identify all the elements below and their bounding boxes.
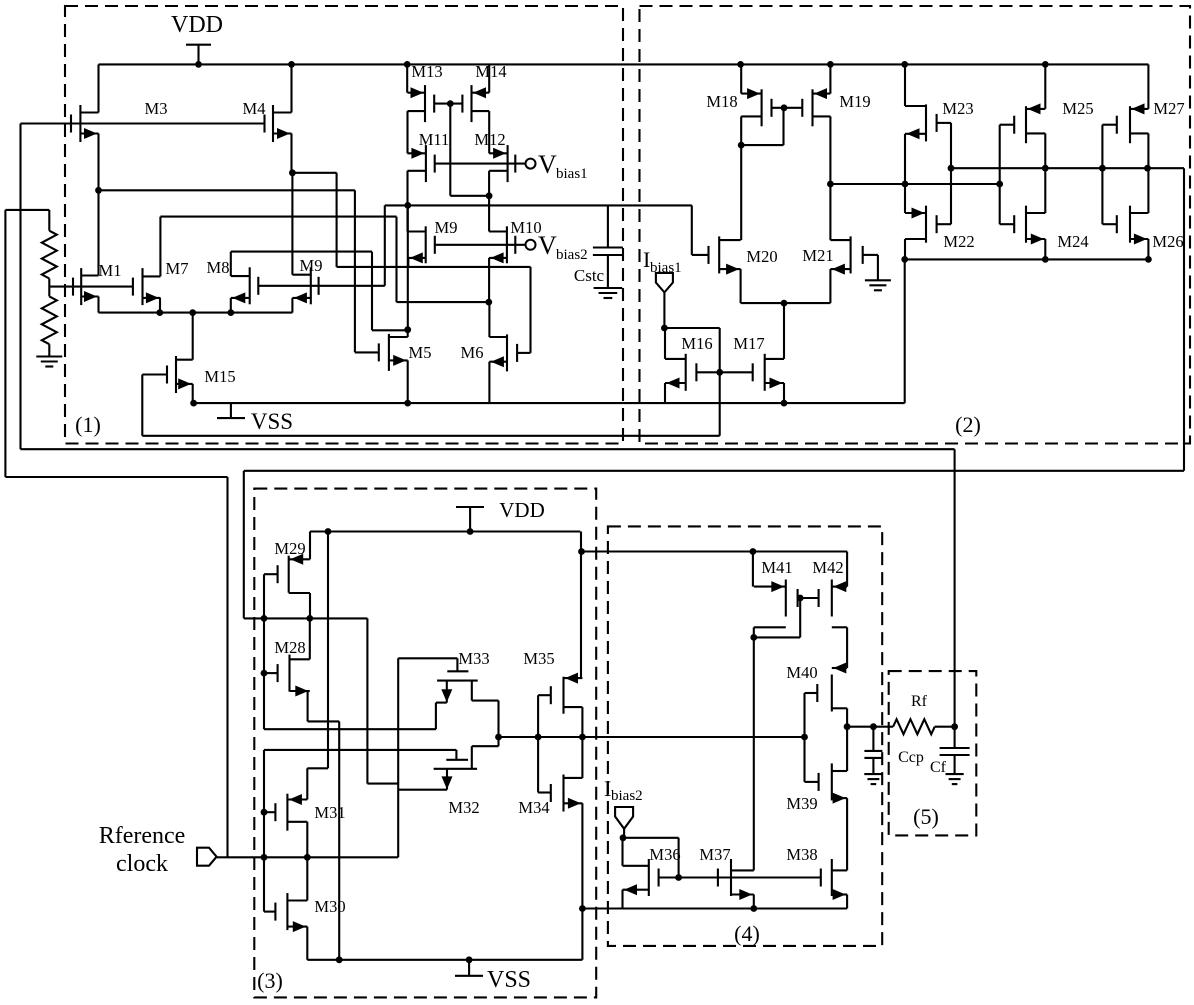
wire M4-source line xyxy=(292,172,336,174)
junction node J57 (800.2,598) xyxy=(797,595,804,602)
transistor M36 xyxy=(623,859,659,896)
wire feedback right vertical to output xyxy=(954,449,956,727)
block (3) dashed border xyxy=(254,489,596,998)
wire node to M12 source xyxy=(450,195,489,197)
wire M39 drain to out node xyxy=(846,727,848,771)
wire M19 source to node xyxy=(829,116,831,184)
wire M9 source down xyxy=(291,298,293,313)
wire M35 source to output xyxy=(581,707,583,737)
wire input lower segment xyxy=(263,750,265,912)
transistor M24 xyxy=(1014,206,1045,245)
junction node J39 (264,618.4) xyxy=(261,615,268,622)
terminal Vbias1 xyxy=(526,159,536,169)
transistor M17 xyxy=(753,354,784,391)
wire M37 source down xyxy=(753,895,755,909)
svg-text:M11: M11 xyxy=(419,130,450,149)
transistor M4 xyxy=(265,105,292,142)
svg-text:M9: M9 xyxy=(300,256,323,275)
wire M6 drain up xyxy=(488,302,490,337)
wire between resistors xyxy=(48,279,50,297)
ground (Cstc) xyxy=(594,288,623,298)
svg-text:M42: M42 xyxy=(812,558,843,577)
junction node J53 (623,837.8) xyxy=(620,834,627,841)
wire M26 drain up xyxy=(1147,168,1149,213)
transistor M25 xyxy=(1014,103,1045,143)
junction node J15 (159.8,312.6) xyxy=(156,309,163,316)
svg-text:M1: M1 xyxy=(99,261,122,280)
wire gates down to node xyxy=(449,104,451,196)
wire gate line up xyxy=(384,205,386,285)
svg-text:M29: M29 xyxy=(274,539,305,558)
junction node J6 (904.7,64.4) xyxy=(901,61,908,68)
junction node J27 (999.7,184) xyxy=(996,181,1003,188)
wire M25 drain to VDD xyxy=(1044,64,1046,109)
svg-text:V: V xyxy=(538,231,557,260)
wire jog left xyxy=(367,783,398,785)
wire jog down xyxy=(371,252,373,331)
junction node J23 (741.2,145.1) xyxy=(738,142,745,149)
wire cascode node line xyxy=(951,167,1148,169)
block (5) dashed border xyxy=(889,671,977,835)
wire M25 gate xyxy=(1000,124,1015,126)
wire M26 source down xyxy=(1147,239,1149,259)
wire output row xyxy=(499,736,805,738)
wire M24 drain up xyxy=(1044,168,1046,213)
wire M35 gate stub xyxy=(538,694,551,696)
wire input upper segment xyxy=(263,574,265,729)
svg-text:M28: M28 xyxy=(274,638,305,657)
svg-text:M19: M19 xyxy=(839,92,870,111)
capacitor Cstc xyxy=(593,248,623,256)
svg-text:clock: clock xyxy=(116,851,168,877)
transistor M42 xyxy=(819,580,848,628)
svg-text:(3): (3) xyxy=(257,968,283,993)
transistor M27 xyxy=(1117,103,1149,143)
svg-text:M20: M20 xyxy=(746,247,777,266)
junction node J2 (291.5,64.4) xyxy=(288,61,295,68)
junction node J24 (784,107.8) xyxy=(781,104,788,111)
wire M13 drain to VDD xyxy=(406,64,408,92)
block (4) dashed border xyxy=(608,526,882,946)
junction node J38 (581.5,551.5) xyxy=(578,548,585,555)
wire M22 drain up xyxy=(904,184,906,213)
transistor M22 xyxy=(905,206,937,243)
wire M24 gate xyxy=(1000,223,1015,225)
wire to M20 gate xyxy=(691,205,693,255)
wire block2 bottom rail xyxy=(905,258,1149,260)
wire M21 gate xyxy=(863,254,878,256)
junction node J3 (407.2,64.4) xyxy=(404,61,411,68)
VDD rail (block 3) xyxy=(310,530,580,532)
terminal Ibias2 xyxy=(615,807,633,829)
wire VDD rail corner down xyxy=(580,532,582,552)
svg-text:M16: M16 xyxy=(681,334,712,353)
svg-text:Rference: Rference xyxy=(99,823,186,849)
VDD symbol (top) xyxy=(186,45,211,65)
wire M8,M9 gate line xyxy=(258,285,385,287)
wire M15 gate xyxy=(142,373,167,375)
wire M39 source to M38 drain xyxy=(846,798,848,870)
wire M6 source to VSS xyxy=(488,362,490,403)
terminal Ibias1 xyxy=(656,273,673,292)
svg-text:M36: M36 xyxy=(649,845,680,864)
svg-text:(2): (2) xyxy=(955,412,981,437)
wire M5 node to Vbias2 node xyxy=(407,205,409,329)
wire M31 gate xyxy=(264,811,275,813)
transistor M40 xyxy=(817,663,847,712)
wire M30 gate xyxy=(264,911,275,913)
wire M18,M19 gate line xyxy=(772,107,803,109)
svg-text:M32: M32 xyxy=(448,798,479,817)
wire M14 drain to VDD xyxy=(488,64,490,92)
svg-text:M34: M34 xyxy=(518,798,549,817)
wire to M33 source xyxy=(264,728,436,730)
wire M4 drain to VDD xyxy=(290,64,292,112)
svg-text:M33: M33 xyxy=(458,649,489,668)
wire M5 drain up xyxy=(407,330,409,337)
svg-text:VSS: VSS xyxy=(487,967,531,993)
wire M9u source tap xyxy=(407,258,409,267)
transistor M28 xyxy=(278,655,310,697)
wire clock input xyxy=(217,856,264,858)
junction node J46 (469.1,959.8) xyxy=(466,956,473,963)
wire node down to M37 drain xyxy=(753,637,755,870)
junction node J31 (951,168.2) xyxy=(948,165,955,172)
transistor M30 xyxy=(275,893,307,932)
transistor M13 xyxy=(408,85,435,122)
transistor M29 xyxy=(278,554,310,593)
wire M16,M17 gate line xyxy=(696,371,752,373)
wire node down to gate line xyxy=(678,838,680,878)
wire M24 source down xyxy=(1044,239,1046,259)
wire M15 gate down xyxy=(141,375,143,436)
wire M42 source to M40 drain xyxy=(846,627,848,668)
junction node J35 (784,303.1) xyxy=(781,300,788,307)
transistor M7 xyxy=(133,268,161,305)
junction node J7 (1045.3,64.4) xyxy=(1042,61,1049,68)
junction node J22 (719.7,372.3) xyxy=(716,369,723,376)
wire M3 drain to VDD xyxy=(97,64,99,112)
junction node J51 (582.4,908.5) xyxy=(579,905,586,912)
junction node J5 (830.4,64.4) xyxy=(827,61,834,68)
transistor M18 xyxy=(741,88,771,126)
capacitor Cf lead xyxy=(954,727,956,748)
wire M27 source down xyxy=(1147,133,1149,168)
wire M41 source to gates xyxy=(754,636,800,638)
svg-text:VSS: VSS xyxy=(251,409,293,434)
wire node down xyxy=(366,618,368,783)
svg-text:M22: M22 xyxy=(943,232,974,251)
wire resistor-top branch vertical xyxy=(4,210,6,477)
VSS rail (block 3) xyxy=(307,959,582,961)
svg-text:M6: M6 xyxy=(461,343,484,362)
junction node J50 (804.5,737) xyxy=(801,734,808,741)
wire M5 source to VSS xyxy=(407,360,409,403)
transistor M21 xyxy=(830,236,862,274)
junction node J32 (1045.3,168.2) xyxy=(1042,165,1049,172)
wire M35,M34 gate vertical xyxy=(537,695,539,792)
wire jog up to VDD rail xyxy=(327,532,329,769)
junction node J21 (664.4,328) xyxy=(661,325,668,332)
wire feedback horizontal under blocks xyxy=(21,448,955,450)
svg-text:(4): (4) xyxy=(734,921,760,946)
wire M1/M3 node line xyxy=(99,189,355,191)
wire M19 drain to VDD xyxy=(829,64,831,93)
wire M22 gate xyxy=(937,223,951,225)
svg-text:M38: M38 xyxy=(786,845,817,864)
junction node J44 (307.3,857.3) xyxy=(304,854,311,861)
svg-text:VDD: VDD xyxy=(499,498,545,522)
junction node J45 (339.2,959.8) xyxy=(336,956,343,963)
transistor M1 xyxy=(73,268,99,305)
wire M30 source to VSS xyxy=(306,927,308,960)
wire M21 drain up xyxy=(829,184,831,240)
transistor M15 xyxy=(167,356,193,393)
block (2) dashed border xyxy=(640,6,1191,444)
junction node J48 (538.1,737) xyxy=(535,734,542,741)
junction node J41 (264,673.1) xyxy=(261,670,268,677)
wire M29 drain to VDD rail xyxy=(309,532,311,560)
transistor M38 xyxy=(821,859,847,900)
junction node J25 (830.4,184) xyxy=(827,181,834,188)
wire Vbias2 node line xyxy=(385,204,692,206)
junction node J58 (847.1,726.7) xyxy=(844,723,851,730)
transistor M34 xyxy=(551,775,583,812)
wire feedback left vertical xyxy=(19,124,21,450)
wire down to M5 gate xyxy=(354,190,356,352)
wire Rf to Cf node xyxy=(935,726,955,728)
wire M15 drain to tail xyxy=(192,313,194,360)
wire M29 source to node xyxy=(309,593,311,618)
wire node line right xyxy=(830,183,999,185)
svg-text:(5): (5) xyxy=(913,804,939,829)
svg-text:bias2: bias2 xyxy=(556,247,588,263)
wire resistor tap to M1,M7 gates xyxy=(49,286,133,288)
junction node J14 (407.7,329.7) xyxy=(404,326,411,333)
VSS symbol (block 1) xyxy=(217,403,245,418)
wire M1 source to tail xyxy=(97,297,99,313)
junction node J36 (328,531.5) xyxy=(325,528,332,535)
junction node J47 (498.5,737) xyxy=(495,734,502,741)
wire M17 source to VSS xyxy=(783,383,785,403)
svg-text:M23: M23 xyxy=(942,99,973,118)
transistor M32 (rotated) xyxy=(434,737,499,790)
capacitor Cf xyxy=(940,748,970,755)
wire M8 drain up xyxy=(230,252,232,277)
junction node J4 (740.6,64.4) xyxy=(737,61,744,68)
transistor M16 xyxy=(665,354,696,391)
svg-text:M3: M3 xyxy=(145,99,168,118)
junction node J56 (753.8,637.4) xyxy=(750,634,757,641)
wire M3-M4 gate line xyxy=(21,122,265,124)
wire M14 source to M12 drain xyxy=(488,111,490,153)
junction node J42 (264,812.2) xyxy=(261,809,268,816)
wire VDD to M35 drain xyxy=(580,552,582,679)
junction node J8 (98.5,190.3) xyxy=(95,187,102,194)
wire M16 source to VSS xyxy=(664,383,666,403)
svg-text:M17: M17 xyxy=(733,334,764,353)
junction node J33 (1102.4,168.2) xyxy=(1099,165,1106,172)
wire Ccp to ground xyxy=(872,758,874,774)
wire branch horizontal xyxy=(5,476,227,478)
wire M40 source to out node xyxy=(846,708,848,726)
ground (Ccp) xyxy=(864,774,882,784)
transistor M6 xyxy=(489,334,517,371)
wire M5 gate xyxy=(355,351,379,353)
transistor M10 xyxy=(489,226,515,263)
svg-text:M14: M14 xyxy=(475,62,506,81)
wire M23 gate xyxy=(937,122,951,124)
transistor M31 xyxy=(275,794,307,831)
terminal reference clock xyxy=(197,848,217,866)
transistor M37 xyxy=(718,859,754,900)
wire M9 drain up / M4 source node xyxy=(291,173,293,275)
junction node J52 (753.8,908.5) xyxy=(750,905,757,912)
junction node J19 (407.7,403.1) xyxy=(404,400,411,407)
junction node J37 (470.1,531.5) xyxy=(467,528,474,535)
junction node J28 (904.7,259.4) xyxy=(901,256,908,263)
wire M20 source down xyxy=(740,269,742,303)
svg-text:bias2: bias2 xyxy=(611,788,643,804)
wire M23 drain to VDD xyxy=(904,64,906,106)
wire M36,M37,M38 gate line xyxy=(659,876,821,878)
svg-text:M9: M9 xyxy=(435,218,458,237)
terminal Vbias2 xyxy=(526,240,536,250)
wire jog to M5 drain xyxy=(372,329,408,331)
svg-text:Cf: Cf xyxy=(930,759,947,776)
transistor M12 xyxy=(489,145,515,182)
wire rail to VSS xyxy=(904,259,906,403)
wire M6 gate xyxy=(517,352,530,354)
junction node J60 (954.6,726.7) xyxy=(951,723,958,730)
wire M23 source down xyxy=(904,134,906,184)
wire M9u,M10 gate line to Vbias2 xyxy=(435,244,526,246)
junction node J40 (309.8,618.4) xyxy=(306,615,313,622)
svg-text:M41: M41 xyxy=(761,558,792,577)
wire M23,M22 gate vertical xyxy=(950,123,952,224)
wire Ibias2 down xyxy=(623,829,625,838)
junction node J34 (1147.5,168.2) xyxy=(1144,165,1151,172)
transistor M8 xyxy=(231,267,258,304)
junction node J29 (1045.3,259.4) xyxy=(1042,256,1049,263)
svg-text:M39: M39 xyxy=(786,794,817,813)
transistor M5 xyxy=(379,334,408,371)
VDD rail (blocks 1,2) xyxy=(99,63,1149,65)
svg-text:M31: M31 xyxy=(314,803,345,822)
svg-text:M24: M24 xyxy=(1057,232,1088,251)
wire M3 source / M1 drain xyxy=(97,134,99,276)
svg-text:Cstc: Cstc xyxy=(574,266,605,285)
junction node J12 (489.1,195.8) xyxy=(486,192,493,199)
wire Ibias1 node right xyxy=(664,327,719,329)
wire M21 source down xyxy=(829,269,831,303)
wire resistor to ground xyxy=(48,344,50,356)
wire M41 source down xyxy=(753,627,755,637)
wire branch vertical to clock line xyxy=(226,477,228,857)
wire M26 gate xyxy=(1102,223,1116,225)
junction node J20 (784,403.1) xyxy=(781,400,788,407)
svg-text:M30: M30 xyxy=(314,897,345,916)
wire M31 drain jog xyxy=(306,768,308,799)
svg-text:M21: M21 xyxy=(802,246,833,265)
junction node J10 (407.8,205.4) xyxy=(404,202,411,209)
wire M42 drain up xyxy=(846,552,848,587)
wire M33 gate line xyxy=(398,657,457,659)
junction node J18 (193.6,403.1) xyxy=(190,400,197,407)
transistor M14 xyxy=(462,85,489,122)
svg-text:VDD: VDD xyxy=(171,12,223,38)
wire M10 source down xyxy=(488,258,490,302)
VSS rail (blocks 1,2) xyxy=(194,402,905,404)
wire Ibias2 node right xyxy=(623,837,679,839)
svg-text:M27: M27 xyxy=(1153,99,1184,118)
svg-text:Rf: Rf xyxy=(911,693,928,710)
wire M31 source down xyxy=(306,822,308,858)
wire M18 drain to VDD xyxy=(740,64,742,93)
svg-text:M37: M37 xyxy=(699,845,730,864)
wire M41,M42 gate line xyxy=(798,597,819,599)
wire M41 drain up xyxy=(752,552,754,587)
resistor R1 (upper) xyxy=(42,231,57,279)
wire M28 source down xyxy=(290,690,308,692)
wire block2 output horizontal xyxy=(244,470,1184,472)
junction node J30 (1148.4,259.4) xyxy=(1145,256,1152,263)
wire stage1 node line xyxy=(244,617,368,619)
wire M25,M24 gate vertical xyxy=(999,125,1001,225)
capacitor Ccp lead xyxy=(872,727,874,751)
wire M40 gate stub xyxy=(805,692,818,694)
transistor M33 (rotated) xyxy=(437,658,498,737)
wire M13 source to M11 drain xyxy=(406,111,408,153)
wire M33-gate column xyxy=(397,658,399,857)
wire M34 drain to output xyxy=(581,737,583,778)
svg-text:bias1: bias1 xyxy=(650,260,682,276)
svg-text:M8: M8 xyxy=(207,258,230,277)
wire M30 drain up xyxy=(306,857,308,900)
capacitor Ccp xyxy=(864,751,882,758)
wire M36 drain up xyxy=(621,838,623,866)
transistor M11 xyxy=(407,145,434,182)
wire Cstc to ground xyxy=(607,255,609,288)
transistor M41 xyxy=(754,580,798,628)
transistor M3 xyxy=(71,105,99,142)
svg-text:Ccp: Ccp xyxy=(898,749,924,766)
wire M7 source down xyxy=(159,298,161,313)
svg-text:M7: M7 xyxy=(166,259,189,278)
wire tail rail M1,M7,M8,M9 xyxy=(99,312,293,314)
wire M36 source down xyxy=(621,890,623,909)
wire M12 source to M10 drain xyxy=(488,171,490,232)
wire M11,M12 gate line to Vbias1 xyxy=(435,163,526,165)
svg-text:M13: M13 xyxy=(411,62,442,81)
wire input node line xyxy=(264,856,398,858)
transistor M9u xyxy=(408,226,435,263)
svg-text:bias1: bias1 xyxy=(556,166,588,182)
junction node J13 (488.8,302.1) xyxy=(485,299,492,306)
svg-text:M10: M10 xyxy=(510,218,541,237)
ground (Cf) xyxy=(946,774,964,784)
wire M39 gate stub xyxy=(805,781,819,783)
wire Cf to ground xyxy=(954,755,956,774)
svg-text:V: V xyxy=(538,150,557,179)
wire source rail block4 xyxy=(582,907,847,909)
wire jog down xyxy=(336,173,338,267)
wire M22 source down xyxy=(904,239,906,259)
capacitor Cstc lead xyxy=(607,205,609,247)
wire M38 source down xyxy=(846,895,848,909)
svg-text:M35: M35 xyxy=(523,649,554,668)
wire node to M20 drain xyxy=(740,145,742,240)
